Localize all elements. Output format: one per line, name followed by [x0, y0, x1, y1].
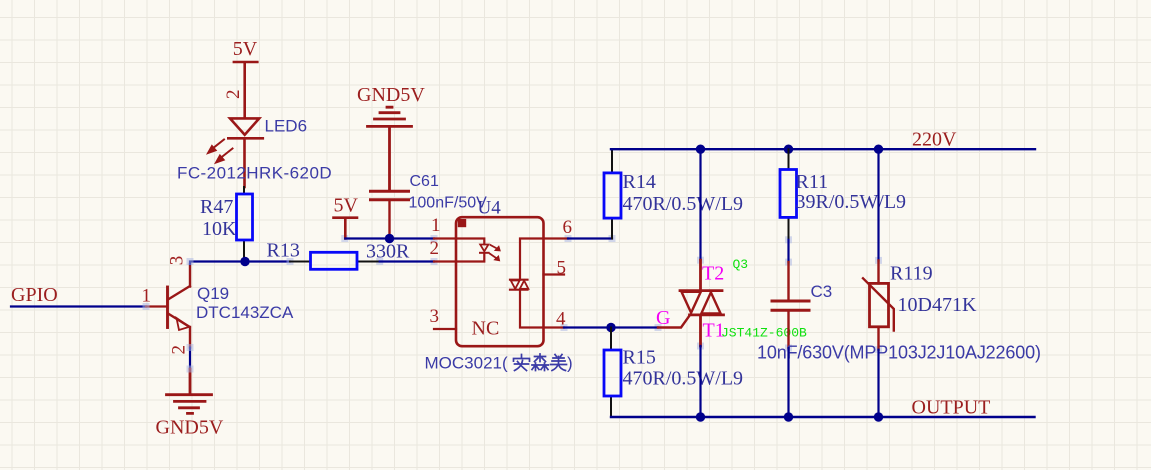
svg-text:C3: C3: [811, 282, 833, 301]
LED LED6: [228, 118, 262, 187]
varistor R119: [863, 260, 894, 349]
svg-text:T2: T2: [702, 263, 724, 285]
MOC pin 3 (NC): [434, 328, 456, 330]
junction R119/OUTPUT: [874, 412, 883, 421]
capacitor C3: [772, 262, 809, 348]
wire 220V to triac T2: [699, 149, 701, 260]
resistor R14: [604, 149, 621, 238]
svg-text:R11: R11: [796, 171, 829, 193]
svg-text:6: 6: [563, 217, 573, 238]
svg-text:4: 4: [556, 309, 566, 330]
svg-text:R13: R13: [267, 240, 300, 262]
MOC pin 5: [544, 273, 565, 275]
svg-text:Q19: Q19: [197, 284, 229, 303]
svg-text:OUTPUT: OUTPUT: [912, 397, 991, 419]
svg-text:U4: U4: [478, 198, 502, 219]
svg-text:1: 1: [431, 215, 441, 236]
svg-text:2: 2: [223, 90, 244, 100]
junction 220V/triac: [696, 145, 705, 154]
svg-text:R119: R119: [890, 263, 933, 285]
junction C61/5V node: [385, 234, 394, 243]
svg-text:Q3: Q3: [733, 257, 749, 272]
junction 220V/R119: [874, 145, 883, 154]
wire C3 to OUTPUT: [787, 348, 789, 417]
capacitor C61: [371, 191, 409, 238]
junction 220V/R11: [784, 145, 793, 154]
svg-text:G: G: [656, 307, 670, 329]
MOC pin 6: [544, 237, 569, 239]
svg-text:3: 3: [167, 256, 188, 266]
svg-text:2: 2: [430, 238, 440, 259]
MOC pin 1: [434, 237, 456, 239]
wire 5V to MOC pin1: [345, 237, 434, 239]
svg-text:10D471K: 10D471K: [898, 294, 977, 316]
svg-text:GND5V: GND5V: [357, 84, 425, 106]
resistor R13: [290, 252, 380, 269]
transistor Q19: [146, 264, 190, 348]
svg-text:470R/0.5W/L9: 470R/0.5W/L9: [623, 368, 744, 390]
wire R11 to C3: [787, 240, 789, 262]
wire R13 to MOC pin2: [380, 260, 434, 262]
wire GPIO to Q19 base: [11, 305, 146, 307]
svg-text:5V: 5V: [233, 38, 258, 60]
wire Q19 emitter to ground: [189, 348, 191, 370]
svg-text:2: 2: [169, 345, 190, 355]
MOC pin 4: [544, 326, 565, 328]
svg-text:5: 5: [557, 258, 567, 279]
power 5V (top, LED supply): [233, 38, 258, 118]
svg-text:330R: 330R: [366, 241, 410, 263]
svg-text:100nF/50V: 100nF/50V: [409, 195, 488, 212]
resistor R11: [780, 149, 797, 240]
wire 220V to R119: [877, 149, 879, 260]
svg-text:R47: R47: [200, 196, 233, 218]
op-to-coupler U4 MOC3021 box: [456, 217, 544, 346]
svg-text:R15: R15: [623, 347, 656, 369]
MOC internal LED: [456, 239, 500, 262]
junction pin4/R15/gate node: [606, 323, 615, 332]
svg-text:LED6: LED6: [265, 117, 308, 136]
svg-text:MOC3021(: MOC3021(: [425, 354, 508, 373]
junction Q19 collector node: [240, 257, 249, 266]
svg-text:3: 3: [430, 306, 440, 327]
svg-text:NC: NC: [472, 318, 500, 340]
power 5V (MOC drive): [334, 195, 359, 239]
svg-text:): ): [567, 354, 573, 373]
wire triac T1 to OUTPUT: [699, 346, 701, 417]
svg-text:GPIO: GPIO: [11, 284, 58, 306]
svg-text:470R/0.5W/L9: 470R/0.5W/L9: [623, 193, 744, 215]
MOC internal triac/diac: [510, 239, 544, 328]
net 220V rail: [611, 148, 1035, 150]
resistor R15: [604, 328, 621, 418]
wire MOC pin6 to R14: [568, 237, 612, 239]
wire MOC pin4 to gate/R15: [564, 326, 658, 328]
svg-text:10nF/630V(MPP103J2J10AJ22600): 10nF/630V(MPP103J2J10AJ22600): [757, 343, 1041, 363]
svg-text:10K: 10K: [202, 218, 237, 240]
svg-text:220V: 220V: [912, 129, 957, 151]
svg-text:39R/0.5W/L9: 39R/0.5W/L9: [796, 191, 907, 213]
wire end markers: [143, 235, 883, 373]
MOC pin 2: [434, 260, 456, 262]
svg-text:JST41Z-600B: JST41Z-600B: [721, 326, 807, 341]
svg-text:FC-2012HRK-620D: FC-2012HRK-620D: [177, 164, 332, 183]
ground GND5V (below Q19): [156, 369, 224, 439]
junction C3/OUTPUT: [784, 412, 793, 421]
svg-text:DTC143ZCA: DTC143ZCA: [196, 303, 294, 322]
junction triac/OUTPUT: [696, 412, 705, 421]
svg-text:C61: C61: [410, 173, 439, 190]
CJK 安森美 as strokes: [514, 354, 567, 371]
ground GND5V (above C61, inverted): [357, 84, 425, 191]
net OUTPUT rail: [611, 416, 1035, 418]
LED6 emission arrows: [208, 140, 233, 164]
wire R119 to OUTPUT: [877, 350, 879, 417]
svg-text:GND5V: GND5V: [156, 417, 224, 439]
resistor R47: [237, 187, 253, 262]
triac Q3: [658, 260, 724, 346]
svg-text:R14: R14: [623, 171, 656, 193]
wire Q19 collector to junction: [190, 262, 290, 265]
svg-text:5V: 5V: [334, 195, 359, 217]
